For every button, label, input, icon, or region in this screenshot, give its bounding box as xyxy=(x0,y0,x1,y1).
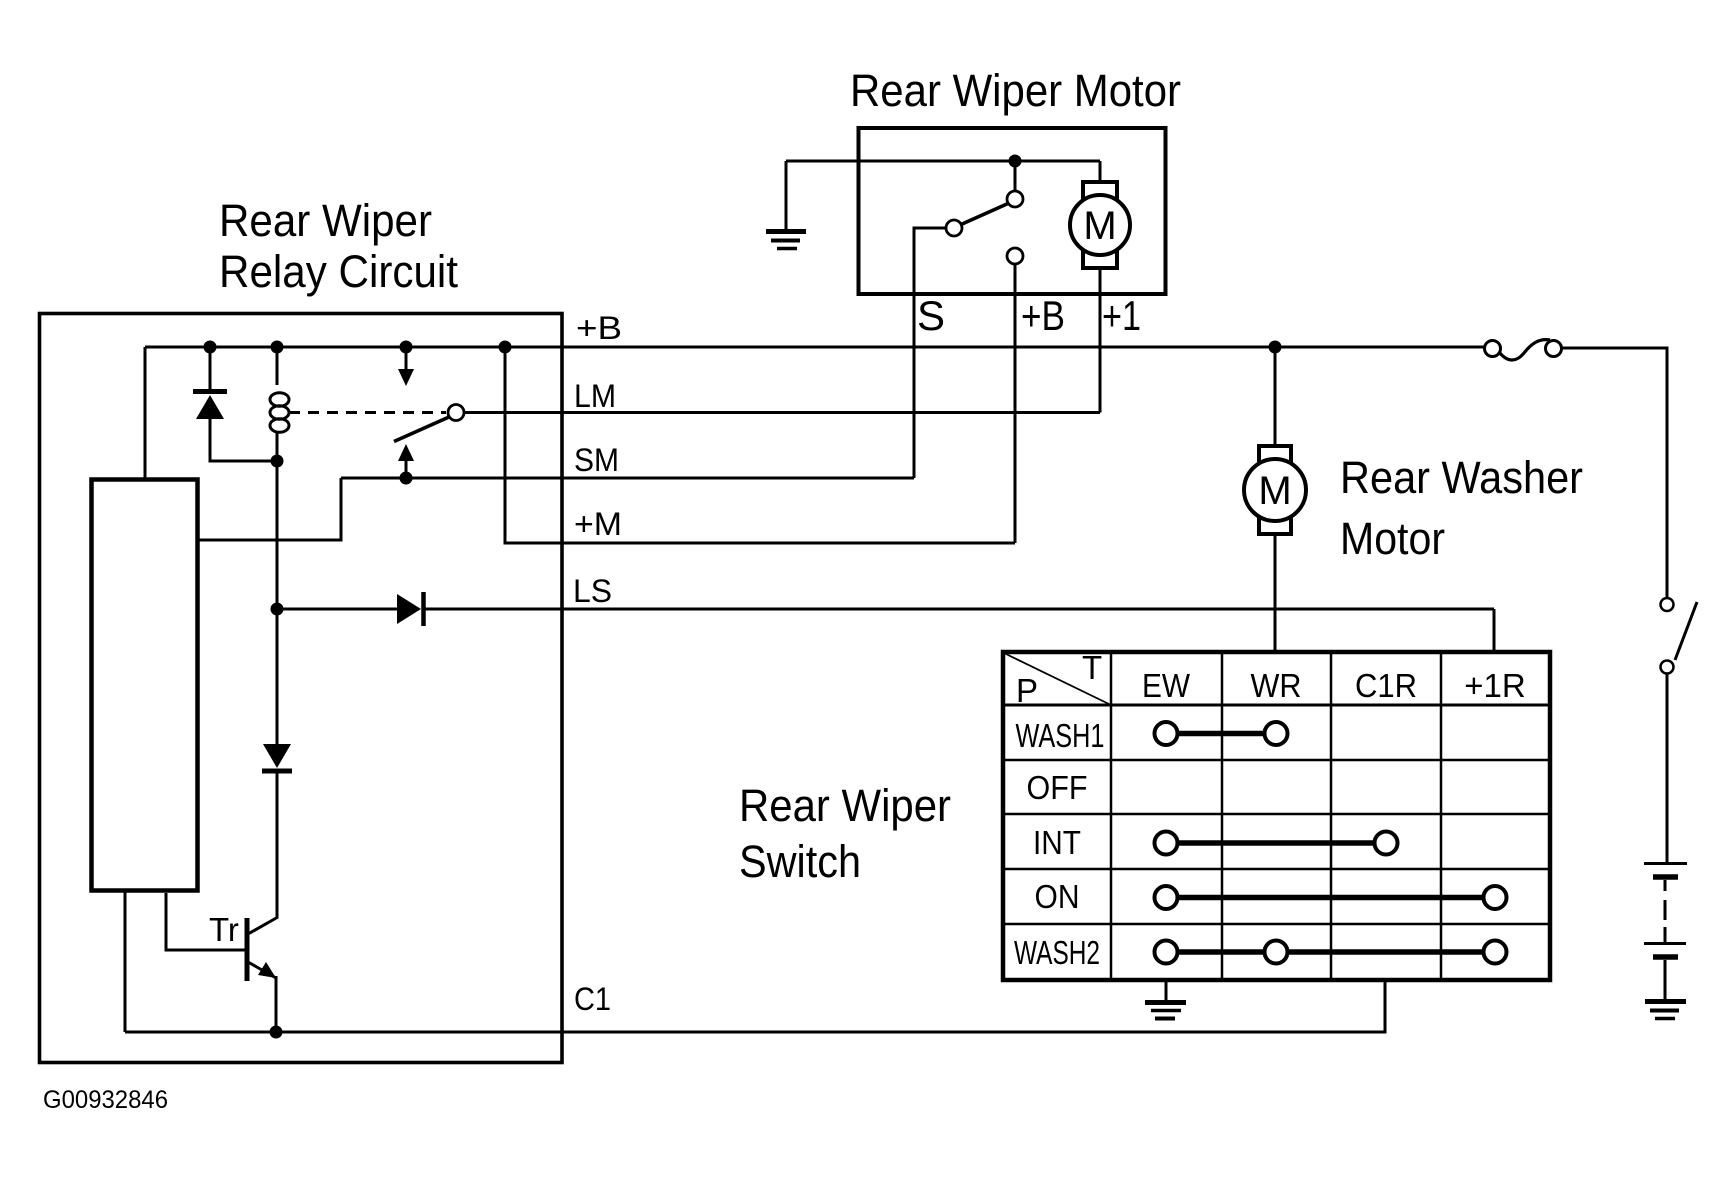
svg-text:LM: LM xyxy=(574,378,616,414)
wire washer motor to WR xyxy=(1274,534,1277,652)
relay coil L1 xyxy=(276,347,279,385)
node junction SM/arrow xyxy=(400,472,413,485)
svg-text:S: S xyxy=(917,292,945,339)
node junction LS xyxy=(271,603,284,616)
wire LS down to switch table xyxy=(1493,609,1496,652)
diode D1 (relay coil clamp) xyxy=(209,347,212,389)
rear wiper motor box xyxy=(859,128,1166,294)
wire internal top (motor box) xyxy=(786,160,1100,163)
wire LS left xyxy=(277,608,397,611)
terminal +B contact (motor) xyxy=(1007,248,1023,264)
wire +M xyxy=(505,347,1015,543)
wire +B bus xyxy=(145,346,1484,349)
svg-text:Relay Circuit: Relay Circuit xyxy=(219,246,458,297)
svg-text:Motor: Motor xyxy=(1340,513,1445,564)
ground (wiper motor) xyxy=(785,161,788,229)
wire +1 terminal xyxy=(1099,268,1102,413)
svg-text:Rear Wiper: Rear Wiper xyxy=(739,780,951,831)
IC control unit (tall rectangle) xyxy=(92,480,198,891)
contacts WASH1 row EW-WR xyxy=(1166,731,1276,737)
wire SM step to IC xyxy=(198,478,341,540)
wire after fuse xyxy=(1562,348,1667,597)
svg-text:Switch: Switch xyxy=(739,836,861,887)
svg-text:P: P xyxy=(1016,672,1038,709)
svg-text:EW: EW xyxy=(1142,667,1191,704)
svg-text:M: M xyxy=(1083,204,1116,248)
svg-text:Tr: Tr xyxy=(209,911,239,948)
contacts INT row EW-C1R xyxy=(1166,840,1386,846)
svg-text:C1: C1 xyxy=(574,981,611,1017)
node junction bus/diode xyxy=(204,341,217,354)
node junction bus/contact xyxy=(400,341,413,354)
switch SW1 (right side) xyxy=(1661,598,1674,611)
svg-text:M: M xyxy=(1258,469,1291,513)
motor M1 rear wiper xyxy=(1099,161,1102,183)
diode D2 (LS output) xyxy=(397,594,421,624)
wire C1 xyxy=(125,980,1385,1032)
park switch (in motor) xyxy=(1014,161,1017,190)
svg-text:Rear Wiper: Rear Wiper xyxy=(219,195,432,246)
svg-text:+B: +B xyxy=(1021,292,1065,339)
wire to IC top xyxy=(144,347,147,479)
diode D3 (vertical, to transistor) xyxy=(276,609,279,744)
svg-text:+1: +1 xyxy=(1102,292,1141,339)
node junction bus/coil xyxy=(271,341,284,354)
battery B1 xyxy=(1644,862,1687,865)
svg-text:WASH2: WASH2 xyxy=(1014,934,1100,971)
fuse F1 xyxy=(1499,340,1550,360)
switch table frame xyxy=(1003,652,1550,980)
relay circuit box xyxy=(40,314,563,1063)
wire base to IC xyxy=(166,893,247,950)
svg-text:T: T xyxy=(1082,649,1102,686)
svg-text:+B: +B xyxy=(576,310,622,346)
node junction C1/emitter xyxy=(270,1026,283,1039)
wire LM xyxy=(464,411,1100,414)
motor M2 rear washer xyxy=(1274,347,1277,447)
wire +B terminal xyxy=(1014,264,1017,543)
svg-text:SM: SM xyxy=(574,442,619,478)
node junction coil bottom xyxy=(271,455,284,468)
ground (battery) xyxy=(1645,999,1686,1004)
wire coil to LS xyxy=(276,461,279,609)
relay contact arm (dashed link + pivot) xyxy=(289,411,446,414)
table header diagonal xyxy=(1004,653,1111,705)
svg-text:INT: INT xyxy=(1033,824,1081,861)
svg-text:WR: WR xyxy=(1251,667,1302,704)
wire S terminal xyxy=(914,228,946,478)
ground (switch table EW) xyxy=(1165,980,1168,1000)
svg-text:C1R: C1R xyxy=(1355,667,1417,704)
contacts ON row EW-+1R xyxy=(1166,895,1495,901)
wire SM xyxy=(341,477,914,480)
contacts WASH2 row EW-WR-+1R xyxy=(1166,949,1495,955)
svg-text:ON: ON xyxy=(1035,878,1080,915)
wire IC to C1 xyxy=(124,891,127,1032)
svg-text:OFF: OFF xyxy=(1027,769,1088,806)
svg-text:Rear Wiper Motor: Rear Wiper Motor xyxy=(850,65,1181,116)
node junction bus/+M xyxy=(499,341,512,354)
arrow down (fixed contact from +B) xyxy=(405,347,408,371)
node junction bus/washer xyxy=(1269,341,1282,354)
svg-text:WASH1: WASH1 xyxy=(1016,717,1105,754)
svg-text:Rear Washer: Rear Washer xyxy=(1340,452,1583,503)
svg-text:+M: +M xyxy=(574,506,622,542)
node junction (motor box top) xyxy=(1009,155,1022,168)
svg-text:G00932846: G00932846 xyxy=(43,1086,168,1114)
svg-text:+1R: +1R xyxy=(1464,667,1525,704)
svg-text:LS: LS xyxy=(573,573,612,609)
arrow up (contact to SM) xyxy=(398,444,414,461)
